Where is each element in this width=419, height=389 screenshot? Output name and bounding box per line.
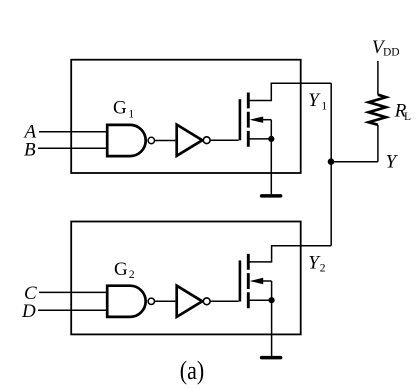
label G2 (114, 259, 135, 281)
input label D (21, 301, 36, 322)
transistor Q1 body arrow (250, 117, 272, 123)
svg-text:2: 2 (129, 269, 135, 281)
transistor Q2 source lead (248, 299, 271, 301)
NAND gate G2 (107, 286, 145, 317)
inverter (buffer) of G1 (177, 125, 203, 156)
wire input C (39, 291, 107, 293)
svg-text:D: D (21, 301, 36, 322)
input label A (23, 122, 37, 143)
junction dot at node Y (328, 158, 335, 165)
ground symbol of circuit 1 (262, 194, 281, 198)
wire Q2 source to ground (271, 300, 273, 356)
svg-text:DD: DD (383, 47, 400, 59)
box gate G2 package (71, 222, 301, 335)
svg-text:1: 1 (321, 100, 327, 112)
junction dot at Q1 source (268, 136, 274, 142)
inverter G1 output bubble (203, 137, 210, 144)
wire NAND G2 to inverter (155, 300, 176, 302)
NAND gate G1 (107, 125, 146, 156)
svg-text:B: B (24, 140, 36, 161)
wire inverter to gate of Q2 (211, 300, 239, 302)
wire inverter to gate of Q1 (211, 139, 239, 141)
transistor Q2 body-to-source wire (271, 281, 273, 300)
wire resistor to node Y (377, 125, 379, 162)
ground symbol of circuit 2 (262, 356, 281, 360)
resistor RL (369, 95, 386, 125)
box gate G1 package (71, 60, 301, 173)
junction dot at Q2 source (269, 297, 275, 303)
label Y2 (308, 252, 326, 274)
label G1 (113, 98, 134, 121)
wire input B (38, 147, 107, 149)
label Y1 (308, 90, 327, 113)
wire NAND G1 to inverter (155, 140, 176, 142)
transistor Q1 source lead (248, 138, 271, 140)
transistor Q2 body arrow (250, 278, 272, 284)
NAND G1 output bubble (148, 137, 154, 143)
caption (a) (180, 357, 204, 385)
wire input A (39, 131, 107, 133)
inverter (buffer) of G2 (177, 286, 203, 317)
svg-text:1: 1 (128, 109, 134, 121)
wire VDD to resistor (377, 61, 379, 95)
transistor Q2 drain lead and wire to node Y2 (248, 246, 331, 262)
svg-text:G: G (114, 259, 128, 280)
svg-text:G: G (113, 98, 127, 119)
transistor Q1 gate bar (239, 99, 242, 140)
svg-text:2: 2 (320, 263, 326, 275)
svg-text:L: L (404, 111, 411, 123)
NAND G2 output bubble (148, 298, 154, 304)
svg-text:(a): (a) (180, 357, 204, 385)
input label B (24, 140, 36, 161)
wire Q1 source to ground (270, 139, 272, 194)
transistor Q1 drain lead and wire to node Y1 (248, 83, 331, 100)
transistor Q1 body-to-source wire (270, 120, 272, 139)
transistor Q1 channel segments (247, 93, 250, 147)
transistor Q2 gate bar (239, 260, 242, 301)
label RL (394, 101, 411, 123)
wire node Y to resistor (331, 161, 378, 163)
wire input D (38, 309, 107, 311)
input label C (24, 283, 37, 304)
wire bus joining Y1 and Y2 (330, 83, 332, 246)
label Y (386, 151, 399, 172)
label VDD (372, 37, 400, 59)
transistor Q2 channel segments (247, 254, 250, 308)
inverter G2 output bubble (203, 298, 210, 305)
